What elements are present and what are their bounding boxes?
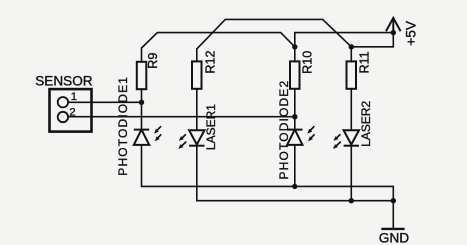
resistor R12 xyxy=(192,61,202,88)
wire laser1 to laser bus xyxy=(197,146,393,201)
connector SENSOR xyxy=(50,89,92,132)
svg-text:2: 2 xyxy=(69,106,75,118)
resistor R11 xyxy=(347,61,357,88)
wire R12 top to upper bus xyxy=(197,19,351,61)
junction node +5V xyxy=(391,30,396,35)
wire R12 bottom to laser1 xyxy=(196,89,198,130)
wire laser2 to laser bus xyxy=(350,146,352,201)
junction node R9/pin1 xyxy=(139,100,144,105)
svg-text:GND: GND xyxy=(379,231,410,245)
svg-text:PHOTODIODE1: PHOTODIODE1 xyxy=(116,76,130,176)
svg-text:1: 1 xyxy=(71,91,77,103)
wire photodiode2 to bottom bus xyxy=(294,145,296,187)
junction node R10 top xyxy=(292,44,297,49)
wire +5V rail to R10 top xyxy=(295,33,394,62)
junction node gnd bus xyxy=(391,198,396,203)
junction node photodiode2 bottom xyxy=(292,184,297,189)
svg-text:PHOTODIODE2: PHOTODIODE2 xyxy=(277,80,291,180)
+5V supply symbol xyxy=(386,18,401,32)
wire R10 bottom to photodiode2 xyxy=(294,89,296,130)
resistor R10 xyxy=(290,61,300,88)
laser1 light arrows xyxy=(181,134,186,146)
svg-text:LASER2: LASER2 xyxy=(359,100,373,146)
svg-text:R9: R9 xyxy=(146,53,160,69)
svg-text:R12: R12 xyxy=(204,50,218,73)
junction node photodiode2/pin2 xyxy=(292,114,297,119)
photodiode1 light arrows xyxy=(156,126,161,139)
wire R9 top to +5V bus A xyxy=(142,33,295,62)
wire sensor pin2 to photodiode2 node xyxy=(68,116,295,118)
svg-text:R10: R10 xyxy=(301,51,315,74)
ground symbol GND xyxy=(381,228,404,230)
resistor R9 xyxy=(137,62,147,89)
laser diode LASER2 xyxy=(344,130,359,146)
wire R11 bottom to laser2 xyxy=(350,89,352,130)
photodiode PHOTODIODE2 xyxy=(287,130,302,145)
photodiode PHOTODIODE1 xyxy=(134,130,149,145)
wire R9 bottom to photodiode1 xyxy=(141,89,143,130)
laser2 light arrows xyxy=(335,134,340,146)
junction node laser2 bottom xyxy=(349,198,354,203)
svg-text:SENSOR: SENSOR xyxy=(35,74,93,89)
junction node R11 top xyxy=(349,44,354,49)
svg-text:LASER1: LASER1 xyxy=(204,104,218,150)
wire +5V drop to R11 top xyxy=(351,33,393,62)
svg-text:R11: R11 xyxy=(357,51,371,73)
wire gnd stem xyxy=(392,201,394,228)
photodiode2 light arrows xyxy=(310,126,315,139)
wire photodiode1 to bottom bus xyxy=(142,145,394,201)
wire sensor pin1 to photodiode1 node xyxy=(68,101,141,103)
laser diode LASER1 xyxy=(189,130,204,146)
svg-text:+5V: +5V xyxy=(404,20,419,46)
